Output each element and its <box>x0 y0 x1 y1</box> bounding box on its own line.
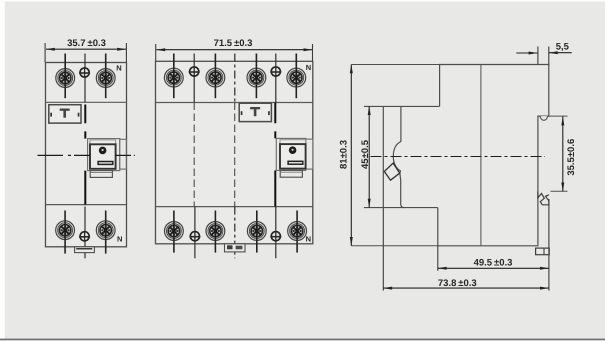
ext 49.5 left <box>437 246 439 271</box>
dim 5,5 arrow left <box>516 52 537 54</box>
dim 81 extension top <box>351 64 439 66</box>
small screw bottom <box>79 232 90 242</box>
device outline <box>46 63 127 247</box>
dim 81 extension bottom <box>351 245 438 247</box>
extension line right <box>312 44 314 61</box>
centerline pole1 bottom <box>64 211 66 254</box>
toggle switch outer box <box>88 139 120 171</box>
big screw bottom 1 <box>165 221 184 240</box>
dimension line 35.7 <box>46 48 126 50</box>
dim 5,5 ext left <box>537 47 539 65</box>
svg-text:N: N <box>306 235 311 244</box>
centerline pole1 top <box>64 54 66 99</box>
big screw top 3 <box>247 68 266 87</box>
big screw top-right <box>96 68 115 87</box>
centerline pole4 top <box>295 54 297 99</box>
svg-text:N: N <box>306 63 311 72</box>
big screw top-left <box>56 68 75 87</box>
extension line left <box>155 44 157 61</box>
big screw bottom 4 <box>288 221 307 240</box>
ext right common <box>548 199 550 291</box>
DIN rail tab <box>225 244 246 252</box>
small screw top <box>79 68 90 78</box>
horizontal centerline <box>38 154 135 156</box>
svg-text:5,5: 5,5 <box>556 41 570 52</box>
centerline n1 bottom <box>194 207 196 259</box>
centerline n2 top <box>275 54 277 103</box>
centerline mid top <box>234 54 236 103</box>
toggle knob diamond <box>384 163 399 180</box>
dim 5,5 arrow right <box>549 52 572 54</box>
horizontal centerline <box>371 156 546 158</box>
bottom shoulder line <box>364 207 438 209</box>
dim 35.5 ext bottom <box>551 190 568 192</box>
dimension line 71.5 <box>156 49 312 51</box>
device outline <box>156 61 313 244</box>
bottom clip <box>536 248 550 255</box>
extension line left <box>44 43 46 63</box>
top shoulder line <box>364 105 440 107</box>
svg-text:N: N <box>117 234 122 243</box>
centerline pole4 bottom <box>296 211 298 253</box>
centerline pole1 bottom <box>173 211 175 253</box>
big screw bottom 2 <box>206 221 225 240</box>
centerline pole2 top <box>214 54 216 99</box>
centerline pole2 bottom <box>214 211 216 253</box>
centerline neutral top <box>84 54 86 103</box>
toggle switch wing <box>306 139 313 169</box>
big screw bottom-left <box>56 221 75 240</box>
strip line top <box>156 102 313 104</box>
svg-text:N: N <box>116 63 121 72</box>
centerline pole2 top <box>105 54 107 99</box>
pole divider thick <box>84 105 86 205</box>
svg-text:81±0.3: 81±0.3 <box>339 140 350 169</box>
toggle switch <box>280 140 306 178</box>
dim 5,5 ext right <box>548 47 550 65</box>
strip line bottom <box>46 204 127 206</box>
centerline pole3 top <box>255 54 257 99</box>
strip line top <box>46 101 127 103</box>
bottom border line <box>0 339 605 341</box>
toggle switch outer box <box>276 138 306 170</box>
top hook notch <box>540 116 547 120</box>
internal vertical line <box>480 65 482 246</box>
big screw top 4 <box>287 68 306 87</box>
big screw bottom 3 <box>247 221 266 240</box>
small screw top 2 <box>270 67 281 77</box>
dim line 73.8 <box>383 287 549 289</box>
svg-text:45±0.5: 45±0.5 <box>360 139 371 169</box>
big screw bottom-right <box>96 221 115 240</box>
dim line 45 <box>368 106 370 207</box>
svg-text:35.7 ±0.3: 35.7 ±0.3 <box>67 38 106 49</box>
front panel line with handle bump <box>393 106 401 173</box>
front line below knob <box>400 174 405 208</box>
centerline pole2 bottom <box>105 211 107 254</box>
T test button <box>49 105 81 123</box>
T test button <box>239 103 271 121</box>
toggle switch wing <box>120 139 127 169</box>
pole divider 2-3 dashed <box>234 103 236 207</box>
small screw bottom 1 <box>189 231 200 241</box>
body outline <box>383 65 549 246</box>
dim line 35.5 <box>562 117 564 192</box>
DIN rail tab <box>75 247 95 253</box>
big screw top 1 <box>164 68 183 87</box>
dim line 49.5 <box>438 267 549 269</box>
ext 73.8 left (front face extended) <box>382 208 384 291</box>
centerline pole3 bottom <box>256 211 258 253</box>
extension line right <box>125 43 127 63</box>
pole divider 3-4 thick <box>274 103 276 207</box>
centerline n1 top <box>193 54 195 103</box>
bottom claw <box>538 192 549 205</box>
small screw bottom 2 <box>270 231 281 241</box>
centerline pole1 top <box>173 54 175 99</box>
centerline n2 bottom <box>275 207 277 259</box>
toggle switch <box>90 140 116 178</box>
small screw top 1 <box>189 67 200 77</box>
svg-text:71.5 ±0.3: 71.5 ±0.3 <box>214 38 253 49</box>
centerline neutral bottom <box>84 207 86 259</box>
big screw top 2 <box>206 68 225 87</box>
centerline mid bottom <box>234 207 236 259</box>
dim 35.5 ext top <box>549 115 568 117</box>
svg-text:35.5±0.6: 35.5±0.6 <box>566 139 577 176</box>
dim line 81 <box>350 65 352 246</box>
pole divider 1-2 dashed <box>193 103 195 207</box>
strip line bottom <box>156 206 313 208</box>
svg-text:49.5 ±0.3: 49.5 ±0.3 <box>474 258 513 269</box>
body fill <box>383 65 549 246</box>
